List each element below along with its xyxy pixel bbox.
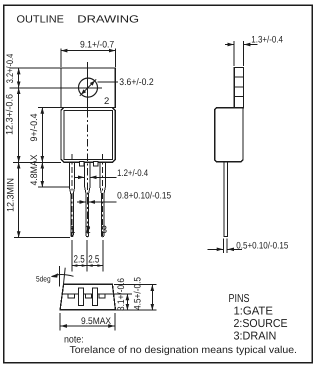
leader to 3.6 label bbox=[98, 81, 119, 83]
lead numbers 1 2 3 bbox=[70, 224, 108, 236]
svg-text:2: 2 bbox=[85, 224, 91, 236]
mounting hole circle bbox=[79, 78, 98, 97]
5deg leader arc bbox=[52, 275, 74, 277]
extension lead shoulder bbox=[38, 186, 69, 188]
lead 3 centerline bbox=[102, 154, 104, 236]
labels 2.5 2.5 bbox=[74, 253, 100, 265]
dim line 12.3+/-0.6 bbox=[18, 88, 20, 163]
label 4.8MAX bbox=[29, 154, 40, 186]
label 4.5+/-0.5 bbox=[133, 277, 144, 310]
dim line 12.3MIN bbox=[18, 162, 20, 237]
label 9+/-0.4 bbox=[29, 114, 40, 142]
extension lead tip bbox=[14, 237, 70, 239]
svg-text:9+/-0.4: 9+/-0.4 bbox=[29, 114, 40, 142]
svg-text:4.5+/-0.5: 4.5+/-0.5 bbox=[133, 277, 144, 310]
body inner rect bbox=[64, 111, 112, 160]
svg-text:3.2+/-0.4: 3.2+/-0.4 bbox=[5, 54, 16, 84]
extension body bottom bbox=[13, 161, 61, 163]
dim line 2.5 pitch bbox=[72, 265, 103, 267]
svg-text:12.3MIN: 12.3MIN bbox=[5, 178, 16, 212]
svg-text:3.6+/-0.2: 3.6+/-0.2 bbox=[119, 77, 153, 88]
label 3.2+/-0.4 bbox=[5, 54, 16, 84]
dim line 3.1 bbox=[126, 294, 128, 310]
lead section 2 bbox=[85, 294, 91, 298]
svg-text:0.5+0.10/-0.15: 0.5+0.10/-0.15 bbox=[236, 241, 288, 252]
svg-text:OUTLINE: OUTLINE bbox=[17, 15, 64, 26]
lead section 3 bbox=[99, 294, 105, 298]
extension bv top bbox=[114, 284, 157, 286]
svg-text:1:GATE: 1:GATE bbox=[234, 306, 274, 318]
svg-text:1.3+/-0.4: 1.3+/-0.4 bbox=[251, 34, 283, 45]
dim line 3.2 bbox=[18, 68, 20, 88]
svg-text:2.5: 2.5 bbox=[74, 253, 85, 265]
serration line 2 bbox=[234, 86, 243, 88]
5deg reference vertical bbox=[59, 266, 61, 286]
svg-text:9.1+/-0.7: 9.1+/-0.7 bbox=[80, 39, 114, 50]
extension bv step bbox=[114, 293, 132, 295]
lead 2 bbox=[85, 163, 90, 237]
hole diameter diagonal bbox=[80, 79, 96, 95]
1.3 extension left bbox=[233, 41, 235, 66]
9.5MAX extension left bbox=[59, 313, 61, 330]
label 0.5+0.10/-0.15 bbox=[236, 241, 288, 252]
label 0.8+0.10/-0.15 bbox=[117, 191, 171, 202]
horizontal centerline bbox=[10, 87, 103, 89]
dim 0.5 arrows bbox=[208, 248, 224, 250]
label 2 (pin2 mark on tab) bbox=[104, 96, 109, 107]
svg-text:1: 1 bbox=[70, 224, 76, 236]
side lead bbox=[224, 162, 228, 237]
serration line 3 bbox=[234, 96, 243, 98]
svg-text:1.2+/-0.4: 1.2+/-0.4 bbox=[117, 168, 148, 179]
side tab bbox=[234, 68, 243, 108]
seating plane line bbox=[63, 293, 114, 295]
boss rect left bbox=[79, 288, 84, 305]
lead 3 bbox=[100, 163, 105, 237]
side body bbox=[215, 108, 243, 162]
label 5deg bbox=[36, 274, 51, 283]
label 1.2+/-0.4 bbox=[117, 168, 148, 179]
9.5MAX extension right bbox=[114, 313, 116, 330]
vertical centerline bbox=[87, 62, 89, 110]
label 12.3MIN bbox=[5, 178, 16, 212]
svg-text:DRAWING: DRAWING bbox=[77, 15, 139, 26]
tab rect bbox=[61, 68, 115, 107]
extension bv bottom bbox=[116, 309, 157, 311]
svg-text:2:SOURCE: 2:SOURCE bbox=[234, 318, 288, 330]
lead section 1 bbox=[68, 294, 75, 298]
dim 1.2 arrows bbox=[75, 176, 84, 178]
dim line 4.5 bbox=[151, 285, 153, 311]
dim 1.3 arrows bbox=[225, 44, 234, 46]
0.5 extension left bbox=[223, 239, 225, 253]
body outer rect bbox=[61, 107, 115, 162]
svg-text:3: 3 bbox=[101, 224, 107, 236]
dim line 9.5MAX bbox=[61, 325, 68, 327]
extension lines bbox=[60, 49, 62, 68]
label 9.5MAX bbox=[81, 316, 112, 327]
extension tab top bbox=[10, 67, 62, 69]
svg-text:2: 2 bbox=[104, 96, 109, 107]
svg-text:PINS: PINS bbox=[229, 293, 250, 305]
lead 1 bbox=[69, 163, 74, 237]
dim 0.8 arrows bbox=[77, 201, 86, 203]
svg-text:Torelance of no designation me: Torelance of no designation means typica… bbox=[70, 345, 298, 356]
dim line 4.8MAX bbox=[41, 162, 43, 187]
lead 1 centerline bbox=[71, 154, 73, 236]
label 3.1+/-0.6 bbox=[116, 278, 127, 311]
svg-text:9.5MAX: 9.5MAX bbox=[81, 316, 112, 327]
label 9.1+/-0.7 bbox=[80, 39, 114, 50]
extension lead2 bbox=[86, 240, 88, 272]
dim line 9+/-0.4 bbox=[41, 107, 43, 162]
0.5 extension right bbox=[226, 239, 228, 253]
svg-text:note:: note: bbox=[64, 334, 84, 345]
serration line 1 bbox=[234, 76, 243, 78]
title OUTLINE DRAWING bbox=[17, 15, 140, 26]
extension lead3 bbox=[102, 240, 104, 272]
dimension line 9.1 bbox=[61, 50, 115, 52]
1.3 extension right bbox=[243, 41, 245, 66]
boss rect right bbox=[92, 288, 97, 305]
extension lead1 bbox=[71, 240, 73, 272]
label 3.6+/-0.2 bbox=[119, 77, 153, 88]
label 1.3+/-0.4 bbox=[251, 34, 283, 45]
svg-text:0.8+0.10/-0.15: 0.8+0.10/-0.15 bbox=[117, 191, 171, 202]
svg-text:12.3+/-0.6: 12.3+/-0.6 bbox=[5, 94, 16, 135]
svg-text:2.5: 2.5 bbox=[88, 253, 99, 265]
extension body top bbox=[38, 106, 61, 108]
label 12.3+/-0.6 bbox=[5, 94, 16, 135]
svg-text:3:DRAIN: 3:DRAIN bbox=[234, 331, 277, 343]
svg-text:3.1+/-0.6: 3.1+/-0.6 bbox=[116, 278, 127, 311]
5deg slant line bbox=[63, 268, 65, 285]
svg-text:5deg: 5deg bbox=[36, 274, 51, 283]
mold tab squares on body bottom bbox=[80, 162, 98, 167]
bottom view outline bbox=[60, 284, 115, 310]
svg-text:4.8MAX: 4.8MAX bbox=[29, 154, 40, 186]
